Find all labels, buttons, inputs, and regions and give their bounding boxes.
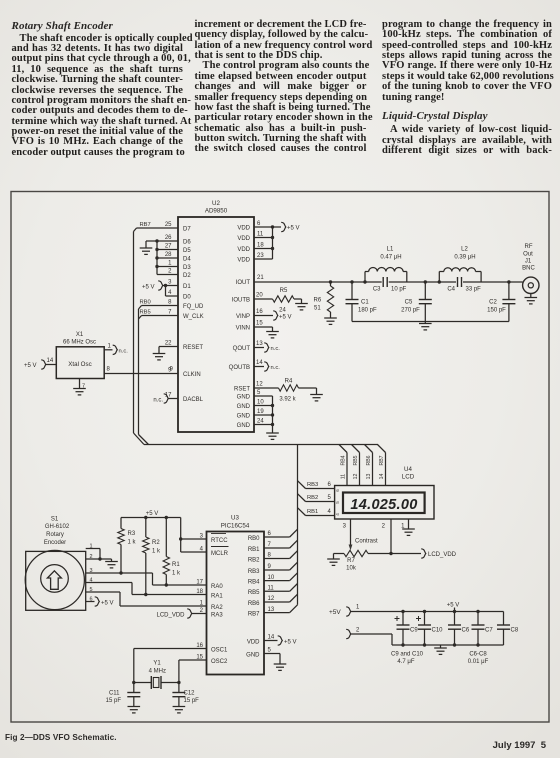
svg-text:2: 2: [356, 628, 360, 634]
svg-text:+5 V: +5 V: [447, 603, 460, 609]
wire data bus horizontal run: [144, 444, 378, 446]
svg-text:1 k: 1 k: [172, 571, 181, 577]
svg-text:10: 10: [257, 400, 264, 406]
svg-text:D5: D5: [183, 248, 191, 254]
capacitor C3 (series): [382, 279, 389, 285]
svg-text:n.c.: n.c.: [271, 365, 281, 371]
svg-text:RB3: RB3: [248, 569, 260, 575]
svg-text:RB6: RB6: [366, 455, 372, 465]
svg-text:RB2: RB2: [248, 557, 260, 563]
capacitor C6: [454, 612, 456, 626]
svg-text:1: 1: [168, 261, 172, 267]
svg-text:23: 23: [257, 253, 264, 259]
svg-text:12: 12: [256, 382, 263, 388]
svg-text:IOUT: IOUT: [236, 280, 251, 286]
MCLR overline: [211, 546, 229, 548]
svg-text:GND: GND: [237, 414, 251, 420]
display U4 LCD module: [335, 486, 434, 520]
svg-text:C9 and C10: C9 and C10: [391, 652, 424, 658]
svg-text:15: 15: [256, 321, 263, 327]
svg-text:C4: C4: [447, 287, 455, 293]
ground (R7): [327, 559, 340, 565]
svg-text:D6: D6: [183, 240, 191, 246]
bus taps to LCD RB4-RB7: [339, 445, 347, 453]
svg-text:12: 12: [353, 474, 359, 480]
svg-text:C12: C12: [184, 691, 196, 697]
svg-text:7: 7: [268, 542, 272, 548]
wire encoder pin 5 to RA2: [86, 591, 120, 593]
svg-text:C3: C3: [373, 287, 381, 293]
svg-text:VDD: VDD: [247, 639, 260, 645]
svg-text:RB5: RB5: [248, 590, 260, 596]
svg-text:RESET: RESET: [183, 345, 203, 351]
svg-text:VDD: VDD: [237, 236, 250, 242]
svg-text:270 pF: 270 pF: [401, 308, 420, 314]
svg-text:10k: 10k: [346, 566, 357, 572]
svg-text:6: 6: [335, 489, 340, 492]
svg-text:L2: L2: [461, 247, 468, 253]
svg-text:LCD_VDD: LCD_VDD: [428, 552, 457, 558]
wire bus vertical to U3: [297, 445, 299, 605]
svg-text:1: 1: [108, 344, 112, 350]
svg-text:RB1: RB1: [248, 547, 260, 553]
svg-text:9: 9: [170, 367, 174, 373]
ground (filter rail): [424, 322, 426, 324]
capacitor C2 150pF: [507, 280, 510, 283]
svg-text:QOUT: QOUT: [233, 346, 251, 352]
svg-text:Xtal Osc: Xtal Osc: [68, 361, 91, 368]
svg-text:28: 28: [165, 252, 172, 258]
svg-text:VINP: VINP: [236, 314, 250, 320]
svg-text:RA2: RA2: [211, 605, 223, 611]
inductor L2 0.39uH with C4 33pF tank: [438, 280, 441, 283]
svg-text:R1: R1: [172, 562, 180, 568]
svg-text:4 MHz: 4 MHz: [149, 669, 166, 675]
ground (R5): [295, 304, 308, 310]
svg-text:RB7: RB7: [140, 222, 151, 228]
svg-text:21: 21: [257, 275, 264, 281]
svg-text:1 k: 1 k: [128, 540, 137, 546]
svg-text:R2: R2: [152, 540, 160, 546]
svg-text:+5 V: +5 V: [284, 640, 297, 646]
svg-text:VDD: VDD: [237, 247, 250, 253]
svg-text:RB5: RB5: [353, 455, 359, 465]
svg-text:+5V: +5V: [329, 609, 341, 616]
svg-text:24: 24: [257, 419, 264, 425]
svg-text:8: 8: [268, 553, 272, 559]
capacitor C9: [402, 612, 404, 626]
svg-text:U2: U2: [212, 200, 220, 207]
ground (U2 GND): [266, 433, 279, 439]
svg-text:13: 13: [256, 341, 263, 347]
svg-text:27: 27: [165, 244, 172, 250]
wire encoder pin 4 to RA1: [86, 582, 132, 584]
svg-text:GND: GND: [237, 423, 251, 429]
svg-text:14: 14: [47, 358, 54, 364]
svg-text:C8: C8: [511, 628, 519, 634]
svg-text:4: 4: [335, 513, 340, 516]
svg-text:RF: RF: [525, 244, 533, 250]
svg-text:11: 11: [268, 586, 275, 592]
ground (R6): [324, 318, 337, 324]
svg-text:VDD: VDD: [237, 258, 250, 264]
capacitor C10: [424, 612, 426, 626]
svg-text:3: 3: [168, 280, 172, 286]
svg-text:0.47 μH: 0.47 μH: [380, 255, 401, 261]
resistor R1 1k: [165, 518, 167, 557]
svg-text:15 pF: 15 pF: [106, 698, 122, 704]
svg-text:Y1: Y1: [153, 661, 161, 667]
svg-text:R7: R7: [347, 558, 355, 564]
svg-text:RB5: RB5: [140, 310, 151, 316]
svg-text:13: 13: [268, 607, 275, 613]
svg-text:PIC16C54: PIC16C54: [221, 523, 250, 530]
svg-text:Encoder: Encoder: [44, 540, 66, 546]
svg-text:4.7 μF: 4.7 μF: [397, 659, 414, 665]
svg-text:4: 4: [328, 509, 332, 515]
svg-text:180 pF: 180 pF: [358, 308, 377, 314]
net LCD_VDD: [421, 549, 426, 558]
svg-text:LCD_VDD: LCD_VDD: [156, 613, 185, 619]
svg-text:25: 25: [165, 222, 172, 228]
svg-text:n.c.: n.c.: [119, 349, 129, 355]
svg-text:OSC1: OSC1: [211, 647, 228, 653]
svg-text:2: 2: [168, 269, 172, 275]
svg-text:R5: R5: [280, 288, 288, 294]
svg-text:C1: C1: [361, 300, 369, 306]
svg-text:3: 3: [343, 524, 347, 530]
svg-text:6: 6: [328, 482, 332, 488]
svg-text:R6: R6: [314, 298, 322, 304]
svg-text:RSET: RSET: [234, 387, 250, 393]
svg-text:RB4: RB4: [248, 579, 260, 585]
svg-text:S1: S1: [51, 517, 59, 523]
svg-text:14: 14: [268, 635, 275, 641]
svg-text:20: 20: [256, 293, 263, 299]
svg-text:IOUTB: IOUTB: [232, 298, 250, 304]
ground (BNC shell): [530, 294, 532, 298]
svg-text:10: 10: [268, 575, 275, 581]
schematic border frame: [11, 192, 549, 723]
encoder knob arrow: [47, 571, 61, 590]
svg-text:C7: C7: [485, 628, 493, 634]
svg-text:RB1: RB1: [307, 509, 318, 515]
U2 data bus ladder D6-D2 tied to ground: [157, 240, 178, 242]
svg-text:8: 8: [107, 367, 111, 373]
svg-text:D0: D0: [183, 295, 191, 301]
svg-text:+5 V: +5 V: [279, 315, 292, 321]
ground (R4): [310, 395, 323, 401]
svg-text:0.01 μF: 0.01 μF: [468, 659, 489, 665]
svg-text:+5 V: +5 V: [287, 226, 300, 232]
svg-text:RB7: RB7: [379, 455, 385, 465]
svg-text:14: 14: [379, 474, 385, 480]
svg-text:66 MHz Osc: 66 MHz Osc: [63, 340, 96, 346]
svg-text:5: 5: [268, 648, 272, 654]
svg-text:DACBL: DACBL: [183, 397, 204, 403]
IC U2 AD9850 DDS chip: [178, 217, 254, 432]
svg-text:RB0: RB0: [248, 536, 260, 542]
svg-text:+5 V: +5 V: [142, 284, 155, 290]
+5V to encoder pin 6: [86, 601, 95, 603]
svg-text:+5 V: +5 V: [24, 363, 37, 369]
svg-text:RB7: RB7: [248, 611, 260, 617]
svg-text:D4: D4: [183, 257, 191, 263]
IC U3 PIC16C54: [207, 532, 265, 675]
svg-text:C6: C6: [462, 628, 470, 634]
wire RB7 from D7 (bus to U3): [137, 227, 179, 229]
svg-text:QOUTB: QOUTB: [229, 365, 250, 371]
svg-text:RA1: RA1: [211, 593, 223, 599]
svg-text:+5 V: +5 V: [146, 511, 159, 517]
svg-text:RB2: RB2: [307, 495, 318, 501]
svg-text:+5 V: +5 V: [101, 601, 114, 607]
svg-text:Out: Out: [523, 251, 533, 257]
wire RB0 to FQ_UD: [142, 305, 179, 307]
U2 GND pins 5/10/19/24 ladder: [254, 395, 273, 397]
svg-text:D3: D3: [183, 265, 191, 271]
svg-text:C2: C2: [489, 300, 497, 306]
svg-text:9: 9: [268, 564, 272, 570]
svg-text:C6-C8: C6-C8: [469, 652, 487, 658]
svg-text:10 pF: 10 pF: [391, 287, 407, 293]
svg-text:VINN: VINN: [236, 326, 250, 332]
svg-text:C11: C11: [109, 691, 120, 697]
svg-text:VDD: VDD: [237, 226, 250, 232]
ground (U3 GND pin 5): [264, 653, 280, 655]
svg-text:11: 11: [257, 232, 264, 238]
ground (LCD pin 1): [408, 527, 410, 529]
capacitor C1 180pF: [350, 280, 353, 283]
svg-text:U3: U3: [231, 515, 239, 522]
svg-text:Rotary: Rotary: [46, 532, 64, 538]
svg-text:R3: R3: [128, 531, 136, 537]
svg-text:6: 6: [257, 221, 261, 227]
capacitor C11 15pF: [133, 683, 135, 693]
svg-text:FQ_UD: FQ_UD: [183, 304, 204, 310]
wire RB5 to W_CLK: [142, 315, 179, 317]
svg-text:n.c.: n.c.: [271, 346, 281, 352]
svg-text:33 pF: 33 pF: [466, 287, 482, 293]
ground (RESET pin 22): [159, 346, 178, 348]
svg-text:RTCC: RTCC: [211, 538, 228, 544]
RTCC overline: [211, 533, 226, 535]
ground (D2-D6): [140, 248, 153, 254]
svg-text:D1: D1: [183, 284, 191, 290]
wire filter bottom rail: [352, 321, 509, 323]
inductor L1 0.47uH with C3 10pF tank: [363, 280, 366, 283]
svg-text:RA0: RA0: [211, 584, 223, 590]
svg-text:RB3: RB3: [307, 482, 318, 488]
svg-text:C9: C9: [410, 628, 418, 634]
svg-text:AD9850: AD9850: [205, 208, 228, 215]
svg-text:13: 13: [366, 474, 372, 480]
svg-text:0.39 μH: 0.39 μH: [454, 255, 475, 261]
capacitor C4 (series): [456, 279, 463, 285]
resistor R3 1k: [120, 518, 122, 529]
U3 RB0-RB7 taps into bus: [264, 536, 290, 538]
svg-text:D2: D2: [183, 273, 191, 279]
svg-text:W_CLK: W_CLK: [183, 314, 204, 320]
svg-text:5: 5: [257, 390, 261, 396]
svg-text:GND: GND: [246, 652, 260, 658]
svg-text:C5: C5: [405, 300, 413, 306]
svg-text:26: 26: [165, 235, 172, 241]
svg-text:X1: X1: [76, 332, 84, 338]
svg-text:MCLR: MCLR: [211, 551, 229, 557]
svg-text:6: 6: [268, 531, 272, 537]
svg-text:11: 11: [340, 474, 346, 479]
oscillator X1 66 MHz: [56, 347, 104, 379]
svg-text:CLKIN: CLKIN: [183, 372, 201, 378]
svg-text:RA3: RA3: [211, 612, 223, 618]
svg-text:4: 4: [168, 290, 172, 296]
svg-text:LCD: LCD: [402, 474, 415, 481]
resistor R2 1k: [145, 518, 147, 538]
svg-text:1: 1: [356, 605, 360, 611]
resistor R6 51 ohm: [329, 280, 332, 283]
svg-text:BNC: BNC: [522, 266, 535, 272]
ground (C11): [128, 707, 141, 713]
capacitor C12 15pF: [178, 683, 180, 693]
svg-text:14: 14: [256, 360, 263, 366]
wires RB3/RB2/RB1 to LCD pins 6/5/4: [298, 481, 306, 489]
capacitor C5 270pF: [424, 280, 427, 283]
svg-text:16: 16: [256, 309, 263, 315]
encoder pins 1,2 to ground: [86, 548, 100, 550]
svg-text:12: 12: [268, 596, 275, 602]
wire encoder pin 3 to RA0: [86, 572, 153, 574]
svg-text:22: 22: [165, 341, 172, 347]
svg-text:51: 51: [314, 306, 321, 312]
svg-text:D7: D7: [183, 227, 191, 233]
capacitor C7: [477, 612, 479, 626]
svg-text:GND: GND: [237, 404, 251, 410]
svg-text:U4: U4: [404, 466, 412, 473]
svg-text:Contrast: Contrast: [355, 538, 378, 544]
+5V to U3 VDD pin 14: [264, 640, 278, 642]
svg-text:7: 7: [168, 310, 172, 316]
svg-text:8: 8: [168, 300, 172, 306]
ground (C12): [173, 707, 186, 713]
svg-text:18: 18: [257, 243, 264, 249]
svg-text:J1: J1: [525, 258, 532, 264]
svg-text:24: 24: [279, 308, 286, 314]
svg-text:R4: R4: [285, 378, 293, 384]
svg-text:RB0: RB0: [140, 300, 151, 306]
svg-text:C10: C10: [432, 628, 444, 634]
svg-text:5: 5: [335, 501, 340, 504]
svg-text:RB4: RB4: [340, 455, 346, 465]
svg-text:19: 19: [257, 409, 264, 415]
svg-text:GND: GND: [237, 395, 251, 401]
svg-text:3.92 k: 3.92 k: [279, 397, 296, 403]
capacitor C8: [503, 612, 505, 626]
svg-text:2: 2: [382, 524, 386, 530]
svg-text:1 k: 1 k: [152, 549, 161, 555]
svg-text:14.025.00: 14.025.00: [350, 497, 417, 513]
svg-text:L1: L1: [387, 247, 394, 253]
svg-text:n.c.: n.c.: [153, 397, 163, 403]
svg-text:150 pF: 150 pF: [487, 308, 506, 314]
svg-text:RB6: RB6: [248, 601, 260, 607]
svg-text:5: 5: [328, 495, 332, 501]
svg-text:OSC2: OSC2: [211, 659, 228, 665]
ground (bypass rail): [440, 645, 442, 648]
svg-text:15 pF: 15 pF: [184, 698, 200, 704]
svg-text:GH-6102: GH-6102: [45, 524, 70, 530]
